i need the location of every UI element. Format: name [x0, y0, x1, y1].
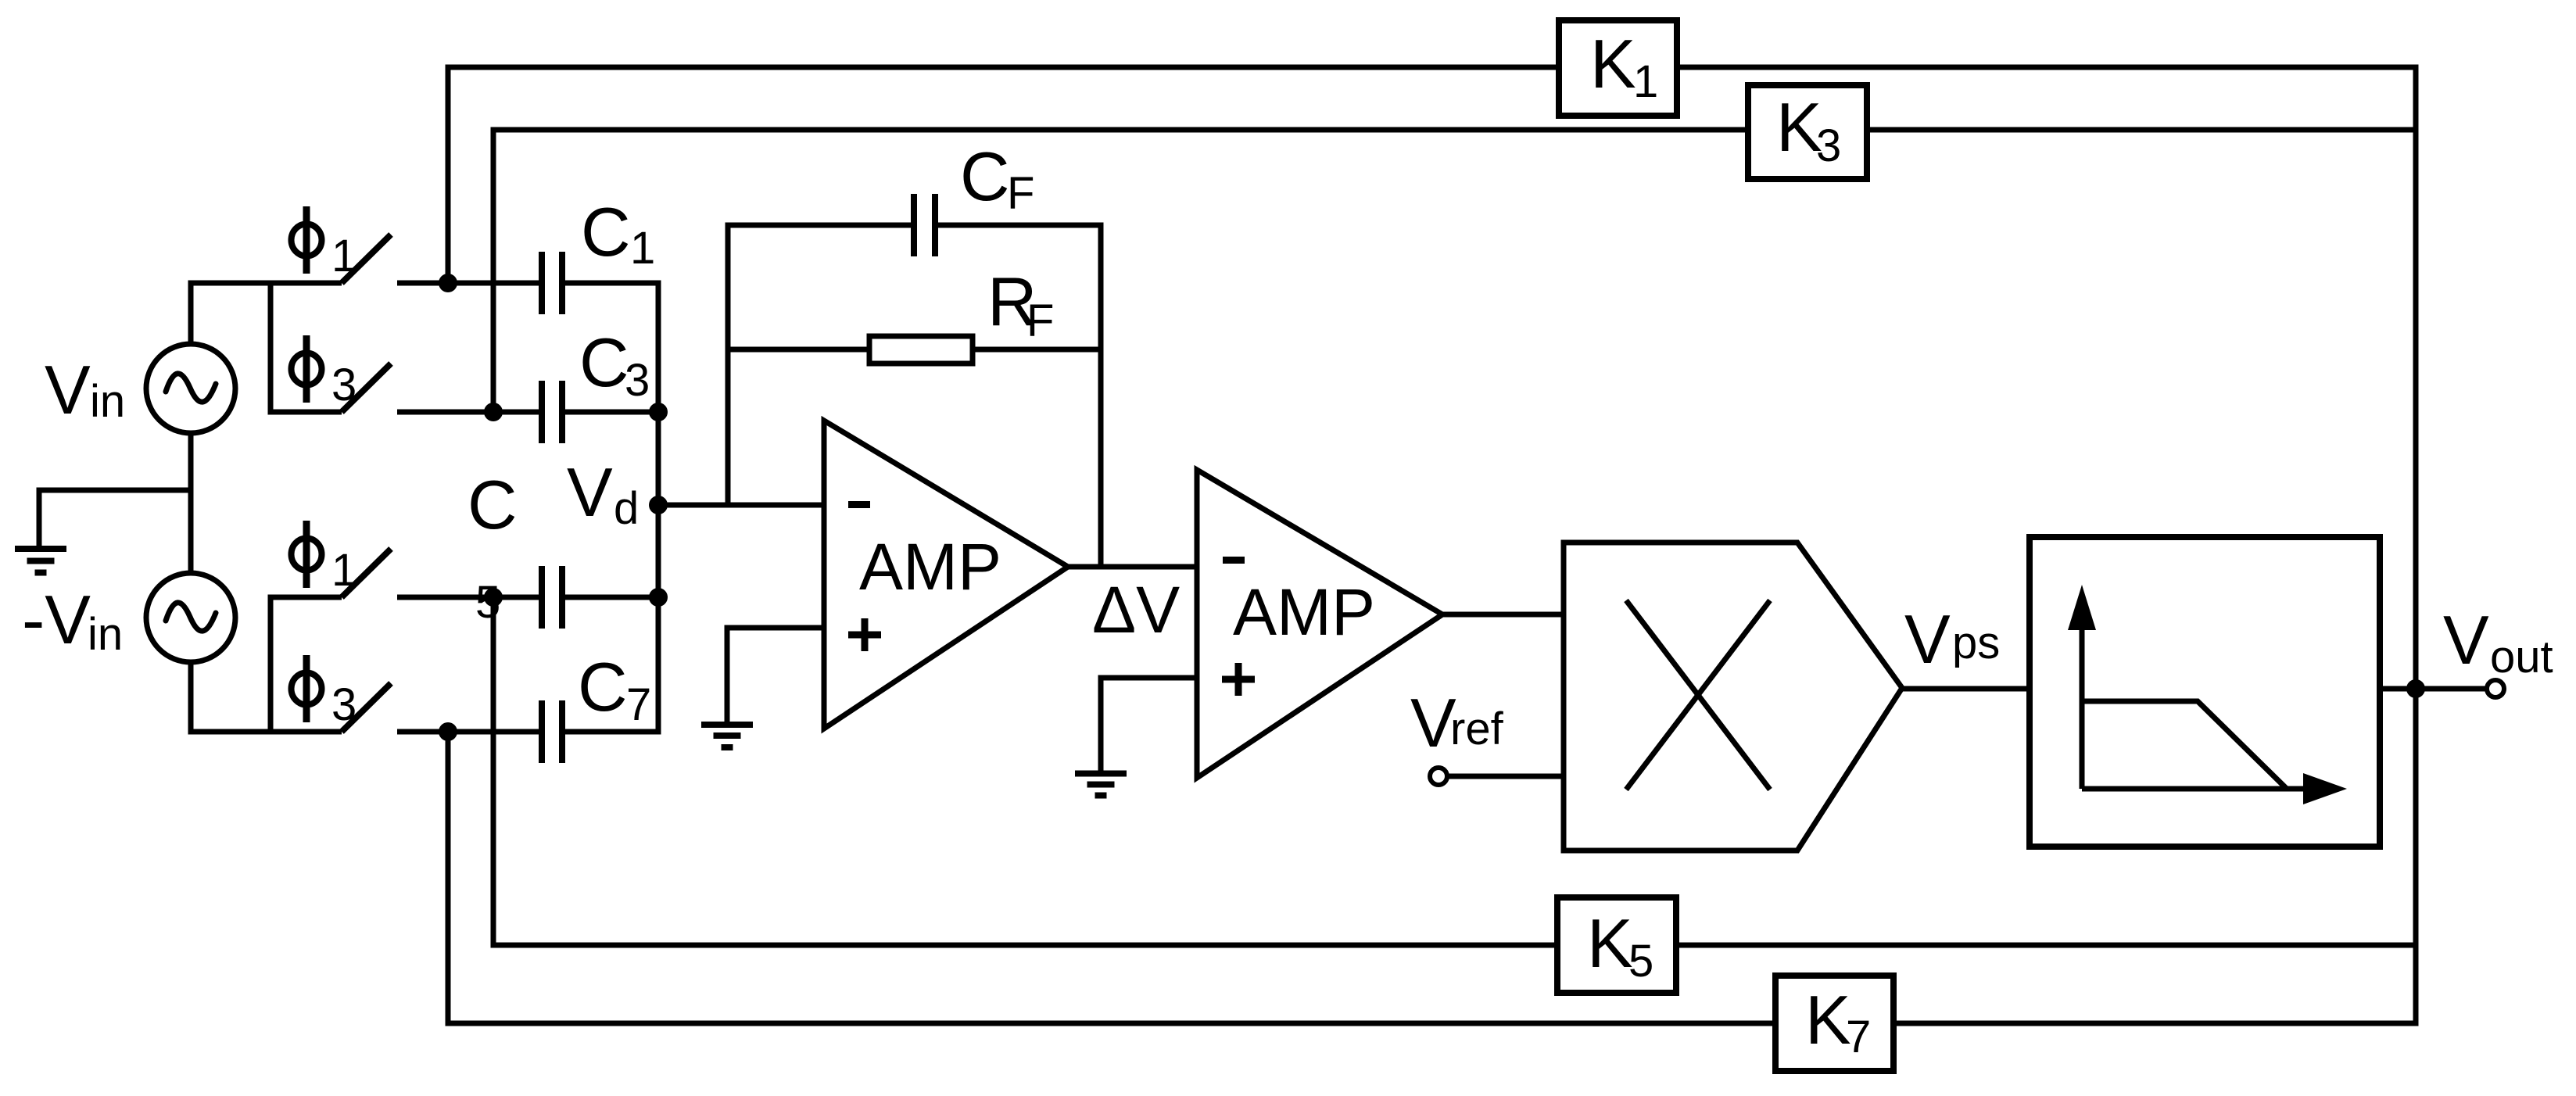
- terminal Vref: [1430, 768, 1447, 785]
- wire branch up to lower switch phi1: [270, 597, 342, 732]
- capacitor C7: [542, 700, 562, 763]
- capacitor CF: [914, 194, 935, 256]
- wire phi1 right contact to C1: [397, 281, 539, 286]
- mixer X symbol: [1626, 600, 1770, 790]
- svg-text:C: C: [960, 138, 1010, 215]
- svg-text:ref: ref: [1450, 704, 1504, 754]
- svg-text:3: 3: [1816, 120, 1841, 171]
- wire lower phi3 right contact to C7: [397, 729, 539, 735]
- terminal Vout: [2487, 680, 2504, 697]
- wire C1 output, right vertical bus, C7 return: [565, 283, 658, 732]
- svg-text:F: F: [1026, 295, 1054, 346]
- svg-text:-V: -V: [22, 581, 91, 658]
- svg-text:K: K: [1587, 904, 1633, 982]
- wire feedback left vertical CF/RF to Vd: [728, 225, 911, 505]
- mixer block: [1564, 543, 1902, 851]
- node phi3 lower/K7 junction: [439, 722, 457, 741]
- svg-text:ΔV: ΔV: [1092, 573, 1180, 646]
- capacitor C3: [542, 381, 562, 443]
- node Vd junction: [649, 496, 668, 514]
- wire center tap to ground: [39, 490, 191, 547]
- svg-text:out: out: [2490, 632, 2553, 682]
- phi symbol upper 3: [292, 335, 322, 403]
- node C5 output junction: [649, 588, 668, 607]
- svg-text:C: C: [468, 466, 518, 543]
- svg-text:AMP: AMP: [859, 530, 1001, 604]
- resistor RF body: [869, 336, 973, 364]
- node junction dots: [439, 274, 2425, 741]
- ground (input center tap): [15, 549, 66, 573]
- wire Vref terminal to mixer: [1447, 774, 1564, 779]
- svg-text:1: 1: [1633, 56, 1658, 107]
- wire K5 feedback: left drop and bottom run: [493, 597, 2416, 945]
- phi symbol lower 1: [292, 521, 322, 588]
- wire AMP2 noninverting input to ground: [1101, 678, 1197, 771]
- svg-text:7: 7: [626, 679, 651, 730]
- node C3 output junction: [649, 403, 668, 421]
- phi symbol lower 3: [292, 655, 322, 722]
- svg-text:1: 1: [331, 545, 356, 596]
- svg-text:V: V: [45, 351, 91, 428]
- wire filter output to Vout terminal: [2380, 686, 2487, 692]
- wire RF left: [728, 347, 869, 353]
- node Vout junction: [2406, 679, 2425, 698]
- wire AMP1 output to AMP2: [1068, 564, 1197, 570]
- wire branch down to switch phi3: [270, 283, 342, 412]
- svg-text:d: d: [614, 483, 639, 534]
- svg-text:V: V: [567, 453, 613, 531]
- op-amp AMP1 minus sign: [848, 501, 870, 508]
- low-pass filter block: [2030, 537, 2380, 847]
- svg-text:ps: ps: [1952, 618, 2000, 668]
- wire C3 output: [565, 410, 658, 415]
- switch phi3 blade: [342, 364, 391, 412]
- node phi1 lower/K5 junction: [484, 588, 503, 607]
- gain block K3: [1748, 85, 1867, 179]
- svg-text:7: 7: [1846, 1012, 1871, 1062]
- wire C5 output: [565, 595, 658, 600]
- wire lower phi1 right contact to C5: [397, 595, 539, 600]
- svg-text:3: 3: [625, 355, 650, 406]
- wire K1 feedback loop: left drop, top run, right bus, K7 bottom run: [448, 67, 2416, 1023]
- gain block K7: [1775, 976, 1893, 1071]
- wire AMP2 output to mixer: [1442, 612, 1564, 618]
- svg-text:K: K: [1590, 25, 1636, 102]
- source -Vin: [146, 573, 235, 662]
- svg-text:in: in: [90, 376, 125, 427]
- capacitor C1: [542, 252, 562, 314]
- capacitor C5: [542, 566, 562, 629]
- op-amp AMP2 minus sign: [1223, 557, 1245, 564]
- phi symbol upper 1: [292, 206, 322, 274]
- wire CF right to AMP1 output: [937, 225, 1101, 567]
- wire K3 feedback: left drop and top run: [493, 130, 2416, 412]
- svg-text:F: F: [1007, 168, 1034, 219]
- filter x-axis with arrow: [2082, 786, 2303, 792]
- svg-text:5: 5: [1628, 936, 1653, 987]
- switch phi1 blade: [342, 235, 391, 283]
- wire node Vd to AMP1 inverting input: [658, 503, 824, 508]
- wire AMP1 noninverting input to ground: [727, 628, 824, 722]
- svg-text:C: C: [578, 648, 628, 725]
- wire Vin to -Vin link: [188, 433, 194, 573]
- filter y-axis with arrow: [2080, 630, 2085, 789]
- svg-text:AMP: AMP: [1233, 575, 1375, 649]
- svg-text:in: in: [88, 609, 123, 660]
- svg-text:V: V: [2443, 601, 2489, 679]
- filter response curve: [2082, 701, 2287, 789]
- svg-text:C: C: [581, 193, 631, 270]
- svg-text:K: K: [1776, 88, 1822, 166]
- ground (AMP1 noninverting): [701, 725, 753, 747]
- wire phi3 right contact to C3: [397, 410, 539, 415]
- wire -Vin bottom rail to switch phi3: [191, 662, 342, 732]
- op-amp AMP1: [824, 421, 1068, 729]
- op-amp AMP2 plus sign: [1222, 663, 1255, 696]
- ground (AMP2 noninverting): [1075, 774, 1127, 796]
- svg-text:1: 1: [630, 223, 655, 274]
- svg-text:3: 3: [331, 679, 356, 730]
- svg-text:5: 5: [475, 577, 500, 628]
- node phi1/K1 junction: [439, 274, 457, 292]
- source Vin: [146, 344, 235, 433]
- switch lower phi1 blade: [342, 549, 391, 597]
- node phi3/K3 junction: [484, 403, 503, 421]
- svg-text:1: 1: [331, 231, 356, 281]
- svg-text:V: V: [1904, 600, 1951, 678]
- svg-text:K: K: [1805, 981, 1851, 1058]
- gain block K5: [1557, 897, 1676, 993]
- svg-text:3: 3: [331, 360, 356, 410]
- op-amp AMP2: [1197, 470, 1442, 778]
- gain block K1: [1559, 20, 1677, 116]
- wire mixer output Vps to filter: [1902, 686, 2030, 692]
- svg-text:C: C: [579, 324, 629, 401]
- switch lower phi3 blade: [342, 683, 391, 732]
- wire Vin top rail to switch phi1: [191, 283, 342, 344]
- wire RF right: [973, 347, 1101, 353]
- op-amp AMP1 plus sign: [848, 618, 881, 651]
